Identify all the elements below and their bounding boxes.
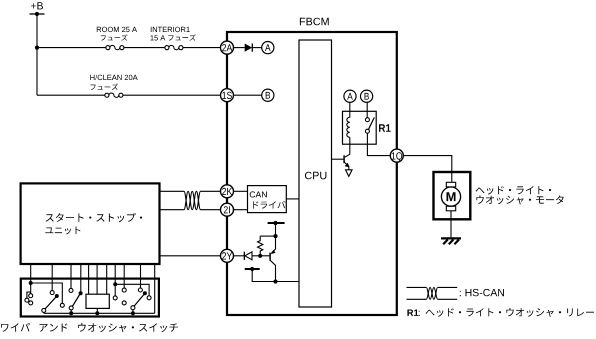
label CPU	[305, 172, 327, 180]
ground arrow Q1 emitter	[346, 170, 353, 177]
diode D2	[234, 255, 245, 257]
wire fuse to 2A	[183, 47, 221, 49]
diode D1	[234, 47, 245, 49]
transistor Q1 NPN	[345, 137, 350, 157]
fuse H/CLEAN 20A	[105, 93, 109, 97]
wiper and washer switch box	[21, 279, 159, 317]
wire resistor top rail	[260, 235, 275, 237]
label R1	[379, 124, 391, 132]
wire +B vertical	[36, 14, 38, 95]
wire contact to 1Q	[367, 133, 390, 155]
wire unit to switch 4	[80, 264, 82, 293]
washer unit sub-block	[86, 294, 109, 308]
wire unit to switch 1	[30, 264, 32, 283]
wire lower tick to CPU	[252, 269, 299, 282]
wire A to coil	[349, 102, 351, 117]
contact sw-c11	[122, 301, 126, 305]
label ROOM 25 A fuse	[97, 27, 137, 32]
wire B to contact	[366, 102, 368, 118]
contact sw-c3	[29, 294, 33, 298]
relay R1 box	[343, 111, 377, 144]
wire unit to switch 3	[70, 264, 72, 289]
connector pin 1Q	[390, 149, 403, 162]
CPU block U1	[299, 40, 332, 307]
switch lever SW-C	[143, 291, 147, 295]
label head-light washer motor	[476, 186, 551, 195]
wire unit to switch 7	[106, 264, 108, 294]
wire unit to switch 2	[51, 264, 53, 291]
motor M1	[446, 182, 455, 187]
FBCM module box	[227, 32, 397, 315]
wire between fuses	[124, 47, 165, 49]
label start-stop unit	[46, 213, 143, 222]
ground chassis	[441, 237, 461, 239]
wire unit to switch 5	[88, 264, 90, 294]
terminal A	[262, 42, 274, 54]
contact sw-c8	[147, 296, 151, 300]
label CAN driver	[250, 191, 267, 197]
contact sw-c2	[25, 298, 29, 302]
connector pin 1S	[221, 89, 234, 102]
label INTERIOR1 15 A fuse	[151, 27, 190, 32]
wire unit to 2Y	[160, 255, 221, 257]
wire unit to 2K	[160, 190, 185, 192]
fuse ROOM 25 A	[106, 46, 110, 50]
head-light washer motor box	[434, 172, 471, 219]
label H/CLEAN 20A fuse	[90, 75, 137, 81]
wire twisted pair to 2I	[201, 209, 221, 211]
wire j1 right branch	[31, 283, 63, 303]
node collector junction	[273, 279, 277, 283]
relay coil L1	[347, 117, 350, 137]
label wiper and washer switch	[1, 323, 178, 332]
switch lever SW-B	[69, 306, 73, 310]
terminal B relay	[361, 90, 373, 102]
wire 1S to B	[234, 94, 262, 96]
wire 2I to CAN driver	[234, 209, 248, 211]
wire unit to switch 8	[114, 264, 116, 284]
connector pin 2I	[221, 203, 234, 216]
wire tick to node	[275, 223, 277, 236]
connector pin 2A	[221, 41, 234, 54]
HS-CAN twisted pair	[184, 191, 201, 209]
wire j1 left spur	[27, 292, 31, 298]
node diode junction	[258, 254, 262, 258]
contact sw-c1	[60, 303, 64, 307]
label FBCM	[300, 18, 329, 26]
wire j2 down	[114, 284, 116, 296]
node junction on +B	[35, 46, 39, 50]
wire unit to switch 11	[154, 264, 156, 313]
node emitter rail	[273, 234, 277, 238]
supply +B	[31, 2, 43, 9]
wire unit to switch 6	[96, 264, 98, 294]
wire twisted pair to 2K	[201, 190, 221, 192]
fuse INTERIOR1 15 A	[165, 46, 169, 50]
start-stop unit box	[21, 183, 160, 264]
contact sw-c10	[122, 288, 126, 292]
wire unit to switch 9	[123, 264, 125, 288]
contact sw-c5	[50, 291, 54, 295]
wire unit to 2I	[160, 209, 185, 211]
terminal A relay	[344, 90, 356, 102]
wire j1 down	[30, 283, 32, 294]
wire to fuse ROOM	[37, 47, 106, 49]
contact sw-c12	[138, 288, 142, 292]
switch lever SW-A	[55, 294, 59, 298]
legend R1 relay	[407, 310, 418, 316]
contact sw-c6	[69, 288, 73, 292]
wire 1Q to motor	[403, 156, 451, 183]
contact sw-c4	[29, 301, 33, 305]
switch common bus	[44, 312, 155, 314]
wire CAN driver to CPU	[286, 198, 299, 200]
relay contact SW1	[365, 118, 369, 122]
connector pin 2Y	[221, 249, 234, 262]
node switch j1	[29, 281, 33, 285]
wire j2 right branch	[115, 284, 149, 296]
terminal B	[262, 89, 274, 101]
transistor Q2 PNP	[272, 236, 276, 253]
CAN driver block	[248, 186, 287, 213]
wire 2K to CAN driver	[234, 190, 248, 192]
wire motor to ground	[450, 211, 452, 238]
wire fuse to 1S	[123, 94, 221, 96]
supply tick lower	[245, 268, 260, 270]
resistor R2	[258, 236, 263, 256]
node switch j2	[113, 282, 117, 286]
contact sw-c9	[113, 296, 117, 300]
wire unit to switch 10	[140, 264, 142, 288]
supply tick upper	[268, 222, 285, 224]
connector pin 2K	[221, 185, 234, 198]
legend HS-CAN symbol	[407, 286, 427, 288]
wire to fuse H/CLEAN	[37, 94, 105, 96]
